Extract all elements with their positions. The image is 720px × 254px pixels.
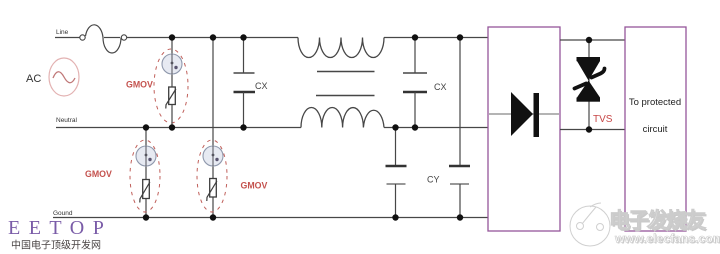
node neutral GMOV1 [169,124,175,130]
svg-text:To protected: To protected [629,97,681,108]
GMOV3 varistor [143,180,150,199]
capacitor CY2 plates [449,165,470,168]
capacitor CY1 wire top [395,128,397,167]
node ground GMOV3 [143,214,149,220]
node line CX1 [240,34,246,40]
capacitor CX1 wire bottom [243,92,245,128]
GMOV1 varistor [169,87,176,105]
GMOV2 varistor [210,179,217,198]
GMOV3 gas discharge tube [136,146,156,166]
svg-text:中国电子顶级开发网: 中国电子顶级开发网 [11,239,101,252]
node ground GMOV2 [210,214,216,220]
AC source sine [53,72,75,83]
GMOV1 gas discharge tube [162,54,182,74]
svg-text:TVS: TVS [593,114,613,125]
GMOV1 wire L-N [171,38,173,128]
svg-text:CX: CX [434,82,447,92]
svg-text:circuit: circuit [643,124,668,135]
node TVS bottom [586,126,592,132]
node TVS top [586,37,592,43]
node neutral CX1 [240,124,246,130]
AC source circle [49,58,79,96]
svg-text:EETOP: EETOP [8,217,112,239]
wire bridge to output bottom [560,129,625,131]
wire neutral rail after choke [384,127,488,129]
capacitor CX2 wire top [414,38,416,74]
svg-text:Line: Line [56,29,69,36]
capacitor CX2 plates [403,72,427,74]
fuse F1 baseline stub [104,37,120,39]
svg-text:GMOV: GMOV [241,181,268,191]
wire line rail middle [127,37,298,39]
GMOV1 highlight ellipse [154,49,188,123]
capacitor CX2 wire bottom [414,92,416,128]
node line CX2 [412,34,418,40]
node line CY2 [457,34,463,40]
node ground CY1 [392,214,398,220]
fuse F1 element [86,25,122,53]
svg-text:GMOV: GMOV [126,80,153,90]
node ground CY2 [457,214,463,220]
node neutral GMOV3 [143,124,149,130]
node line GMOV2 [210,34,216,40]
svg-text:Neutral: Neutral [56,117,78,124]
bridge internal wire [489,113,559,115]
svg-text:CX: CX [255,81,268,91]
GMOV3 highlight ellipse [130,140,160,212]
GMOV2 highlight ellipse [197,140,227,212]
GMOV3 wire N-G [145,128,147,218]
wire line rail after choke [384,37,488,39]
inductor L1 top winding [298,38,384,58]
capacitor CX1 plates [234,72,255,74]
wire ground rail [53,217,488,219]
fuse F1 right terminal [121,35,126,40]
svg-text:AC: AC [26,73,41,85]
svg-text:Gound: Gound [53,210,73,217]
node neutral CY1 [392,124,398,130]
diode D1 [511,92,533,136]
TVS diode symbol [577,57,601,61]
wire bridge to output top [560,39,625,41]
svg-text:www.elecfans.com: www.elecfans.com [614,232,720,246]
svg-text:电子发烧友: 电子发烧友 [609,209,706,233]
elecfans watermark logo [570,203,610,246]
node neutral CX2 [412,124,418,130]
node line GMOV1 [169,34,175,40]
GMOV2 wire L-G [212,38,214,218]
wire neutral rail [56,127,301,129]
fuse F1 left terminal [80,35,85,40]
capacitor CY1 plates [386,165,407,168]
capacitor CY2 wire top from line [459,38,461,167]
GMOV2 gas discharge tube [203,146,223,166]
output box to protected circuit [625,27,686,231]
inductor core lines [317,71,375,73]
capacitor CX1 wire top [243,38,245,74]
bridge rectifier box [488,27,560,231]
inductor L1 bottom winding [301,107,384,127]
wire line rail left [55,37,80,39]
capacitor CY2 wire bottom [459,184,461,218]
TVS wire [588,40,590,130]
svg-text:GMOV: GMOV [85,169,112,179]
capacitor CY1 wire bottom [395,184,397,218]
svg-text:CY: CY [427,175,440,185]
